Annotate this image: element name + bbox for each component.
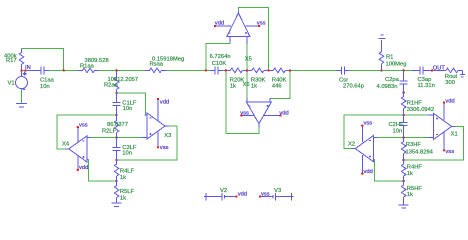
wire X2 output loop to HF top node <box>344 115 428 149</box>
svg-text:vss: vss <box>261 191 270 197</box>
wire X2 minus input run <box>377 137 427 139</box>
op-amp X2 <box>351 126 377 174</box>
svg-text:100Meg: 100Meg <box>386 61 407 67</box>
svg-text:R4LF: R4LF <box>120 169 135 175</box>
resistor Rout <box>446 68 458 73</box>
svg-text:6.7264n: 6.7264n <box>210 54 231 60</box>
svg-text:V1: V1 <box>8 81 15 87</box>
svg-text:300: 300 <box>445 80 455 86</box>
svg-text:446: 446 <box>272 84 282 90</box>
wire X3 output feedback to node N4 <box>117 126 177 160</box>
capacitor C10K <box>211 66 222 74</box>
svg-text:vdd: vdd <box>364 169 373 175</box>
svg-text:X2: X2 <box>348 142 355 148</box>
svg-text:R3HF: R3HF <box>406 142 422 148</box>
node M2 R1HF/C2HF junction <box>403 114 405 116</box>
capacitor C1LF <box>113 102 121 105</box>
ground below R5LF <box>112 203 122 206</box>
resistor R2aa <box>114 77 119 89</box>
termination above R3 <box>379 35 386 38</box>
wire X3 plus input jog <box>117 93 146 115</box>
wire X5 right input to node B <box>246 44 248 70</box>
svg-text:vdd: vdd <box>215 20 224 26</box>
svg-text:vdd: vdd <box>79 165 88 171</box>
svg-text:vss: vss <box>445 149 454 155</box>
wire lead overlays Rout <box>434 69 447 71</box>
capacitor C2HF <box>400 123 408 126</box>
svg-text:vdd: vdd <box>445 98 454 104</box>
svg-text:1k: 1k <box>407 192 413 198</box>
node N2 C1LF/R2LF/X4out <box>115 114 117 116</box>
wire lead overlays left ladder <box>116 70 118 203</box>
ground below V1 <box>16 104 27 107</box>
voltage source V2 <box>204 193 237 201</box>
capacitor C1aa <box>37 66 48 74</box>
svg-text:R4HF: R4HF <box>407 165 423 171</box>
wire X5 output feedback to node C <box>238 7 268 70</box>
svg-text:X4: X4 <box>62 141 70 147</box>
wire X4 output loop to node N2 <box>57 115 117 149</box>
resistor R1HF <box>401 97 406 109</box>
op-amp X6 <box>241 98 280 128</box>
resistor R5HF <box>401 185 406 197</box>
capacitor Csr <box>337 66 348 74</box>
wire X6 left input to node B <box>246 70 248 97</box>
node N1 R2aa/C1LF/X3+ <box>115 92 117 94</box>
wire V1 to ground <box>21 89 23 104</box>
node N4 C3LF/R4LF/X3out <box>115 159 117 161</box>
wire X1 output feedback to node M3 <box>404 126 464 160</box>
svg-text:vss: vss <box>257 20 266 26</box>
node N5 R4LF/R5LF/X4+ <box>115 180 117 182</box>
svg-text:1354.8284: 1354.8284 <box>406 149 434 155</box>
svg-text:R2LF: R2LF <box>102 128 117 134</box>
svg-text:10n: 10n <box>123 106 133 112</box>
svg-text:X1: X1 <box>451 131 458 137</box>
voltage source V1 <box>16 70 28 92</box>
svg-text:X3: X3 <box>164 133 171 139</box>
node IN2 main/R2aa junction <box>115 69 117 71</box>
svg-text:V3: V3 <box>274 188 281 194</box>
svg-text:V2: V2 <box>220 188 227 194</box>
wire X3 minus input run <box>91 137 141 139</box>
svg-text:C2HF: C2HF <box>389 122 405 128</box>
svg-text:C1aa: C1aa <box>40 77 55 83</box>
ground below R5HF <box>399 205 409 208</box>
op-amp X1 <box>428 103 456 151</box>
node M3 C2HF/R3HF/X2- <box>403 136 405 138</box>
wire X6 output feedback to node A <box>226 70 259 133</box>
svg-text:270.64p: 270.64p <box>343 84 364 90</box>
voltage source V3 <box>260 193 294 201</box>
resistor R20K <box>230 68 242 73</box>
resistor R4LF <box>114 164 119 176</box>
svg-text:X5: X5 <box>245 57 252 63</box>
node HF column top junction <box>403 91 405 93</box>
svg-text:R1aa: R1aa <box>80 63 95 69</box>
wire main horizontal net y=70.4 <box>22 69 463 71</box>
resistor R5LF <box>114 186 119 198</box>
svg-text:10n: 10n <box>40 84 50 90</box>
wire lead overlays C1aa <box>28 69 41 71</box>
node B R20K/R30K/X5+/X6- <box>246 69 248 71</box>
svg-text:C2pa: C2pa <box>385 77 400 83</box>
svg-text:1k: 1k <box>251 84 257 90</box>
wire lead overlays Csr <box>336 69 341 71</box>
resistor R3HF <box>401 142 406 154</box>
resistor Rsaa <box>145 68 167 73</box>
svg-text:C10K: C10K <box>212 61 227 67</box>
op-amp X5 <box>215 12 259 45</box>
capacitor C3LF <box>113 148 121 151</box>
wire X6 right input to node D <box>270 70 290 98</box>
wire lead overlays right ladder <box>403 70 405 205</box>
resistor R2LF <box>114 121 119 133</box>
svg-text:vdd: vdd <box>160 99 169 105</box>
wire R17 feedback loop top <box>22 49 64 71</box>
node M5 R4HF/R5HF/X2+ <box>403 180 405 182</box>
ground at Rout <box>460 70 465 77</box>
wire X5 left input to Rsaa/C10K node <box>206 43 230 70</box>
wire lead overlays R20K R30K R40K row <box>227 69 231 71</box>
svg-text:R1: R1 <box>386 54 393 60</box>
node main/C2pa junction <box>403 69 405 71</box>
wire lead overlays C3ap <box>412 69 420 71</box>
capacitor C3ap <box>416 66 427 74</box>
wire lead overlay R17 <box>21 49 23 53</box>
node C R30K/R40K/X5out <box>268 69 270 71</box>
wire lead overlays C10K <box>210 69 215 71</box>
svg-text:86.0377: 86.0377 <box>107 122 128 128</box>
svg-text:vdd: vdd <box>238 191 247 197</box>
svg-text:R30K: R30K <box>251 77 266 83</box>
svg-text:R5LF: R5LF <box>120 189 135 195</box>
svg-text:10n: 10n <box>393 128 403 134</box>
svg-text:vss: vss <box>79 122 88 128</box>
node M4 R3HF/R4HF/X1out <box>403 159 405 161</box>
svg-text:R17: R17 <box>6 58 17 64</box>
resistor R3 <box>379 52 384 64</box>
wire X2 plus input loop to node M4 <box>374 160 403 181</box>
node D R40K/Csr/X6+ <box>289 69 291 71</box>
node A C10K/R20K/X6out <box>225 69 227 71</box>
capacitor C2pa <box>400 81 408 84</box>
node C1aa/R1aa junction <box>63 69 65 71</box>
svg-text:10n: 10n <box>122 150 132 156</box>
node N3 R2LF/C3LF/X4-/X3- <box>115 136 117 138</box>
svg-text:-: - <box>23 86 25 92</box>
svg-text:11.31n: 11.31n <box>418 83 435 89</box>
wire X4 plus input loop to node N5 <box>89 160 117 181</box>
resistor R40K <box>273 68 285 73</box>
svg-text:Rsaa: Rsaa <box>150 61 164 67</box>
op-amp X3 <box>141 99 169 147</box>
svg-text:1k: 1k <box>407 171 413 177</box>
svg-text:4.0983n: 4.0983n <box>377 84 398 90</box>
svg-text:1k: 1k <box>230 84 236 90</box>
svg-text:1k: 1k <box>120 175 126 181</box>
resistor R30K <box>252 68 264 73</box>
svg-text:R40K: R40K <box>272 77 287 83</box>
svg-text:3306.0942: 3306.0942 <box>407 107 434 113</box>
svg-text:1k: 1k <box>120 196 126 202</box>
svg-text:R1HF: R1HF <box>407 100 423 106</box>
op-amp X4 <box>65 127 91 170</box>
svg-text:X6: X6 <box>243 82 250 88</box>
resistor R17 <box>19 49 24 71</box>
svg-text:Csr: Csr <box>339 77 348 83</box>
wire lead overlay R1 pulldown <box>381 40 383 52</box>
resistor R1aa <box>78 68 100 73</box>
svg-text:R2aa: R2aa <box>104 82 119 88</box>
node Rsaa/C10K/X5- junction <box>205 69 207 71</box>
node R3/main junction <box>380 69 382 71</box>
svg-text:vss: vss <box>160 145 169 151</box>
svg-text:vss: vss <box>364 121 373 127</box>
resistor R4HF <box>401 164 406 176</box>
